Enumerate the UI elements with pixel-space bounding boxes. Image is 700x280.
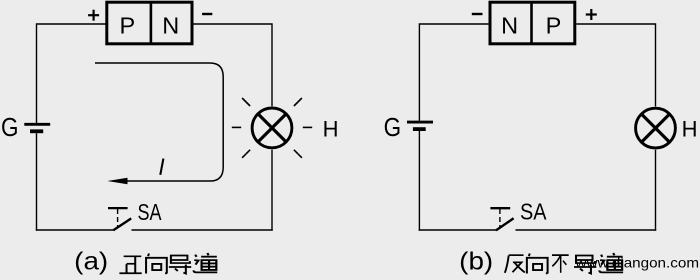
caption character 正 <box>119 256 141 273</box>
wire: switch SA to bottom-right corner (a) <box>132 229 273 231</box>
wire: battery G positive up and right to PN box (a) <box>37 24 106 123</box>
switch SA actuator dashed stem (a) <box>117 209 119 227</box>
PN junction box outline (diode, circuit a) <box>107 2 192 44</box>
wire: bottom rail left segment to switch SA (a) <box>36 229 114 231</box>
svg-text:(b): (b) <box>459 248 493 276</box>
label I (current) <box>160 159 163 175</box>
svg-text:P: P <box>120 12 136 38</box>
current direction arrow path (a) <box>95 63 223 181</box>
NP junction box outline (diode, circuit b) <box>490 2 575 44</box>
svg-text:G: G <box>384 112 402 142</box>
polarity plus sign (a) <box>88 10 99 21</box>
switch SA blade (a) <box>113 218 131 230</box>
caption character 向 (a) <box>146 254 167 274</box>
svg-text:N: N <box>501 12 518 38</box>
current direction arrowhead (a) <box>107 178 127 185</box>
lamp H light rays (a) <box>232 98 312 158</box>
NP junction divider (b) <box>530 2 533 44</box>
wire: bottom rail left segment to switch SA (b) <box>419 229 497 231</box>
switch SA actuator dashed stem (b) <box>499 209 501 227</box>
polarity minus sign (a) <box>202 13 212 15</box>
svg-text:H: H <box>682 117 698 142</box>
switch SA fixed contact bar (a) <box>108 207 128 209</box>
switch SA fixed contact bar (b) <box>490 207 510 209</box>
lamp H bulb circle (b) <box>636 108 676 148</box>
svg-text:P: P <box>546 12 562 38</box>
caption character 导 (a) <box>169 255 191 273</box>
svg-text:SA: SA <box>520 199 547 225</box>
battery G (cell, circuit a) <box>24 124 50 131</box>
lamp H bulb circle (a) <box>252 108 292 148</box>
wire: lamp H top up and left to PN box (a) <box>194 24 273 106</box>
caption character 通 (a) <box>194 253 218 272</box>
wire: switch SA to bottom-right corner (b) <box>516 229 657 231</box>
caption character 导 (b) <box>574 255 596 273</box>
svg-text:www.diangon.com: www.diangon.com <box>574 256 699 271</box>
svg-text:G: G <box>1 112 19 142</box>
lamp H filament cross (a) <box>258 114 286 142</box>
wire: battery G negative down to bottom rail (b) <box>418 131 420 231</box>
svg-text:(a): (a) <box>74 248 108 276</box>
lamp H filament cross (b) <box>641 114 669 142</box>
caption character 通 (b) <box>599 253 623 272</box>
caption character 反 <box>505 255 525 273</box>
PN junction divider (a) <box>150 2 153 44</box>
svg-text:H: H <box>323 117 339 142</box>
caption character 向 (b) <box>527 254 548 274</box>
wire: battery G negative down to bottom rail (a) <box>36 133 38 231</box>
svg-text:N: N <box>162 12 179 38</box>
wire: battery G positive up and right to NP box (b) <box>419 24 489 121</box>
battery G (cell, circuit b) <box>407 122 433 129</box>
wire: lamp H top up and left to NP box (b) <box>576 24 655 106</box>
polarity minus sign (b) <box>472 13 483 15</box>
wire: bottom rail up to lamp H (a) <box>271 150 273 231</box>
polarity plus sign (b) <box>586 9 597 20</box>
switch SA blade (b) <box>496 218 514 230</box>
wire: bottom rail up to lamp H (b) <box>655 150 657 231</box>
svg-text:SA: SA <box>138 199 163 225</box>
caption character 不 <box>552 255 569 273</box>
